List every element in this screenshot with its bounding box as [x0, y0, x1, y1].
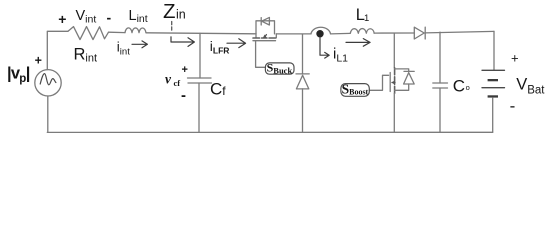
wire C_f branch bottom	[198, 83, 200, 132]
svg-text:iint: iint	[117, 40, 130, 58]
capacitor C_o plates	[433, 83, 448, 88]
wire resistor to inductor	[109, 31, 126, 33]
wire L1 to top diode	[374, 32, 414, 34]
wire gate of Q2 from S_Boost	[369, 75, 388, 90]
wire C_f branch top	[199, 33, 201, 78]
svg-text:-: -	[510, 97, 516, 116]
S_Boost control box	[341, 84, 369, 97]
svg-text:Vint: Vint	[76, 8, 97, 25]
svg-text:+: +	[511, 50, 519, 65]
arrow i_int	[132, 41, 147, 48]
arrow i_LFR	[227, 39, 246, 48]
diode D1 freewheeling	[296, 73, 309, 75]
svg-text:iL1: iL1	[333, 45, 348, 64]
capacitor C_f plates	[188, 78, 212, 83]
wire top-left rail	[47, 31, 68, 69]
wire battery top lead	[493, 31, 495, 70]
svg-text:+: +	[182, 64, 188, 76]
wire source bottom lead	[47, 96, 49, 132]
node dot stem and arrow i_L1	[320, 37, 329, 58]
wire boost branch drain	[393, 33, 395, 68]
svg-text:cf: cf	[174, 78, 181, 88]
svg-text:-: -	[181, 87, 186, 104]
resistor R_int	[68, 27, 109, 40]
wire C_o branch top	[439, 32, 441, 83]
node hop arc	[311, 27, 331, 34]
wire boost source to bottom rail	[393, 93, 395, 132]
annotation arrows	[132, 37, 370, 58]
diode D2 output	[414, 27, 424, 39]
transistor Q2 gate bar	[389, 73, 391, 92]
diode D_q2 symbol	[404, 70, 414, 72]
svg-text:+: +	[35, 54, 42, 68]
transistor Q1 substrate arrow	[264, 35, 266, 38]
diode D_q1 symbol	[260, 18, 262, 25]
wire C_o branch bottom	[439, 88, 441, 132]
arrow Z_in	[171, 37, 194, 47]
svg-text:Zin: Zin	[163, 0, 186, 23]
diode body of Q2 loop	[395, 69, 409, 90]
inductor L1	[350, 29, 374, 34]
svg-text:VBat: VBat	[516, 75, 545, 96]
battery V_Bat plates	[482, 69, 505, 71]
wire freewheel diode branch top	[302, 35, 304, 74]
source waveform	[40, 74, 56, 85]
node junction dot	[316, 30, 323, 37]
wire hop to L1	[331, 32, 351, 35]
Z_in dashed marker	[171, 22, 173, 31]
svg-text:v: v	[165, 72, 172, 87]
wire diode to output node	[425, 31, 494, 33]
svg-text:Rint: Rint	[74, 45, 98, 64]
svg-text:iLFR: iLFR	[210, 38, 230, 56]
arrow under L1	[346, 39, 370, 47]
transistor Q1 buck MOSFET body	[256, 34, 276, 38]
wire buck MOSFET to hop node	[276, 33, 311, 35]
svg-text:|vp|: |vp|	[7, 65, 30, 86]
S_Buck control box	[265, 63, 294, 74]
wire battery bottom lead	[492, 98, 494, 133]
svg-text:L1: L1	[356, 6, 369, 24]
wire bottom rail	[47, 131, 492, 133]
diode body of Q1 (anti-parallel loop above)	[256, 21, 275, 34]
svg-text:+: +	[58, 11, 66, 27]
svg-text:Co: Co	[453, 76, 470, 95]
wire inductor to buck MOSFET (through Z_in point and C_f node)	[146, 33, 256, 34]
svg-text:Lint: Lint	[129, 8, 148, 25]
inductor L_int	[125, 28, 146, 33]
svg-text:-: -	[107, 10, 112, 26]
svg-text:Cf: Cf	[210, 79, 226, 98]
transistor Q2 boost MOSFET channel	[394, 68, 396, 94]
source |v_p| circle	[35, 70, 61, 96]
transistor Q2 substrate arrow	[392, 82, 395, 84]
wire freewheel diode to bottom rail	[302, 89, 304, 132]
wire gate of Q1 to S_Buck	[256, 41, 266, 68]
